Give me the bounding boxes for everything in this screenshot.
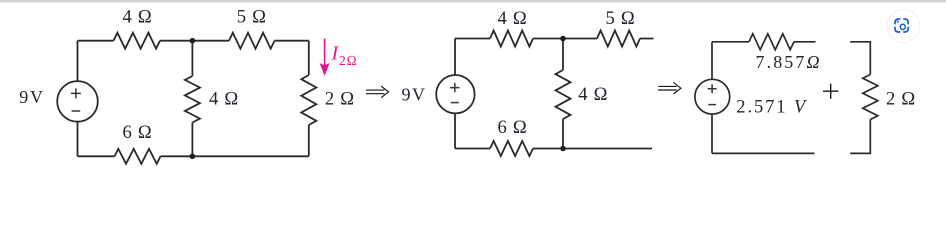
resistor 2ohm right (circuit1): [301, 75, 316, 125]
implies arrow 1: [366, 86, 389, 98]
wire: circuit1 left branch: [77, 41, 79, 157]
svg-text:7.857Ω: 7.857Ω: [756, 52, 822, 72]
resistor 5ohm top (circuit1): [229, 33, 275, 49]
wire: circuit1 top rail: [78, 40, 309, 42]
wire: circuit1 middle branch: [191, 41, 193, 157]
plus sign between source part and 2ohm branch: [823, 84, 838, 99]
svg-text:2Ω: 2Ω: [339, 53, 357, 68]
node dot: circuit1 top: [190, 38, 196, 44]
resistor 4ohm middle (circuit2): [556, 70, 571, 119]
top page divider bar: [0, 0, 946, 2]
svg-text:6 Ω: 6 Ω: [498, 117, 528, 138]
svg-text:2.571 V: 2.571 V: [736, 98, 808, 118]
resistor 2ohm (circuit3): [863, 75, 878, 120]
visual-search icon: corner brackets: [895, 19, 908, 32]
resistor 4ohm top (circuit2): [490, 31, 533, 47]
voltage source 9V (circuit1): [57, 81, 98, 122]
visual-search icon: flash dot: [897, 21, 899, 23]
node dot: circuit1 bottom: [190, 154, 196, 160]
visual-search button: white circle: [887, 10, 920, 43]
resistor 7.857ohm (circuit3): [749, 34, 794, 50]
svg-text:4 Ω: 4 Ω: [498, 8, 528, 29]
visual-search icon: lens ring: [900, 24, 905, 29]
wire: 2ohm branch bottom stub: [850, 120, 870, 154]
plus mark in source (circuit2): [450, 83, 459, 92]
current arrow I2ohm (magenta): [320, 39, 329, 76]
svg-text:9V: 9V: [19, 87, 43, 107]
svg-text:9V: 9V: [402, 84, 426, 104]
wire: circuit2 top rail: [455, 38, 654, 40]
wire: 2ohm branch top stub: [850, 42, 870, 75]
plus mark in source (circuit1): [71, 88, 81, 98]
svg-text:2 Ω: 2 Ω: [325, 88, 355, 109]
wire: circuit1 bottom rail: [78, 155, 309, 157]
minus mark in source (circuit2): [451, 102, 459, 104]
svg-text:6 Ω: 6 Ω: [123, 122, 153, 143]
svg-text:2 Ω: 2 Ω: [886, 88, 916, 109]
node dot: circuit2 top: [560, 36, 566, 42]
voltage source 2.571V (circuit3): [695, 79, 730, 114]
svg-text:4 Ω: 4 Ω: [578, 84, 608, 105]
plus mark in source (circuit3): [708, 84, 717, 93]
wire: circuit1 right branch: [308, 41, 310, 157]
minus mark in source (circuit3): [708, 104, 716, 106]
resistor 5ohm top (circuit2): [597, 31, 640, 47]
implies arrow 2: [658, 82, 681, 94]
wire: circuit3 left branch: [711, 42, 713, 154]
resistor 6ohm bottom (circuit2): [490, 141, 533, 156]
resistor 6ohm bottom (circuit1): [115, 149, 161, 164]
resistor 4ohm middle (circuit1): [185, 76, 200, 123]
voltage source 9V (circuit2): [436, 75, 474, 113]
resistor 4ohm top (circuit1): [114, 33, 161, 49]
svg-text:4 Ω: 4 Ω: [123, 6, 153, 27]
minus mark in source (circuit1): [72, 110, 81, 112]
node dot: circuit2 bottom: [560, 146, 566, 152]
svg-text:5 Ω: 5 Ω: [237, 7, 267, 28]
wire: circuit2 bottom rail: [455, 148, 652, 150]
svg-text:4 Ω: 4 Ω: [209, 88, 239, 109]
wire: circuit2 middle branch: [562, 39, 564, 149]
wire: circuit3 bottom rail: [712, 152, 815, 154]
wire: circuit3 top rail: [712, 41, 816, 43]
wire: circuit2 left branch: [454, 39, 456, 149]
svg-text:5 Ω: 5 Ω: [606, 8, 636, 29]
